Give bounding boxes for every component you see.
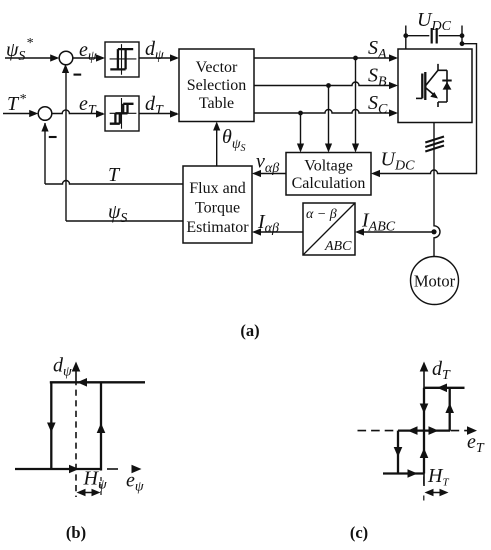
wire T* input [3,110,38,117]
svg-text:Estimator: Estimator [186,219,249,236]
hysteresis upper loop top line (c) [424,384,465,393]
node T* reference input label [7,92,26,115]
hysteresis band width marker (b) [77,477,102,497]
hysteresis lower loop left falling edge (c) [394,431,403,474]
svg-text:(c): (c) [350,523,368,542]
svg-text:Voltage: Voltage [304,158,353,175]
svg-text:Selection: Selection [187,77,247,94]
wire theta_psiS to vector selection table [213,122,245,167]
wire S_B [254,65,398,90]
wire T feedback [41,123,183,187]
hysteresis loop right rising edge (b) [97,382,106,470]
hysteresis comparator H2 (three-level torque) [105,96,139,131]
wire d_psi [139,38,179,63]
wire S_C [254,92,398,117]
wire e_psi [73,39,105,64]
svg-text:Table: Table [199,95,234,112]
node junction on S_A [353,56,358,61]
wire v_alphabeta [252,151,286,178]
wire e_T [52,93,105,118]
wire S_B tap to voltage calculation [325,86,332,153]
svg-text:Flux and: Flux and [189,180,245,197]
summing junction S1 (flux) [59,51,81,74]
svg-text:(a): (a) [240,321,259,340]
wire S_A tap to voltage calculation [352,58,359,153]
hysteresis lower loop bottom line (c) [383,469,424,478]
wire d_psi axis dashed (b) [72,362,81,498]
svg-text:α − β: α − β [306,207,337,222]
wire U_DC feedback to voltage calculation [371,44,477,177]
hysteresis upper loop falling edge on axis (c) [420,388,429,431]
svg-text:Vector: Vector [196,59,238,76]
transistor Q1 IGBT with antiparallel diode [416,64,452,107]
node junction on S_B [326,83,331,88]
wire inverter output to motor [434,123,440,258]
wire psi_S feedback [62,64,183,226]
svg-text:Torque: Torque [195,200,240,217]
DC link capacitor C1 with U_DC label [403,9,464,49]
wire I_alphabeta [252,211,303,236]
wire e_T axis dashed (c) [358,426,485,456]
block alpha-beta to ABC transform U5 [303,203,355,255]
svg-text:T: T [108,164,121,186]
wire S_C tap to voltage calculation [297,113,304,153]
block inverter U3 [398,49,472,123]
node psi_S* reference input label [6,36,33,64]
svg-text:*: * [19,92,26,107]
hysteresis middle line (c) [398,426,450,435]
block voltage calculation U2 [286,153,371,196]
hysteresis loop left falling edge (b) [47,382,56,469]
hysteresis loop top line (b) [50,378,145,387]
node junction on S_C [298,111,303,116]
motor M1 [411,257,459,305]
block vector selection table U1 [179,49,254,122]
svg-text:Motor: Motor [414,272,456,291]
svg-text:Calculation: Calculation [292,175,366,192]
hysteresis loop bottom line (b) [15,465,101,474]
wire S_A [254,37,398,62]
wire I_ABC from current sensor [355,210,432,236]
wire psi_S* input [5,54,59,61]
svg-text:*: * [26,36,33,51]
block flux and torque estimator U4 [183,166,252,243]
wire d_T [139,93,179,118]
hysteresis band width marker (c) [424,477,449,501]
wire d_T axis solid (c) [420,362,429,487]
wire e_psi axis dashed (b) [107,465,144,495]
svg-text:ABC: ABC [324,239,352,254]
three-phase slash marks [425,137,444,152]
node junction U_DC feedback tap [460,41,465,46]
hysteresis comparator H1 (two-level flux) [105,42,139,77]
hysteresis upper loop right rising edge (c) [445,388,454,431]
summing junction S2 (torque) [38,107,56,137]
svg-text:(b): (b) [66,523,86,542]
hysteresis lower loop rising edge on axis (c) [420,431,429,474]
node current sensor tap [431,229,436,234]
